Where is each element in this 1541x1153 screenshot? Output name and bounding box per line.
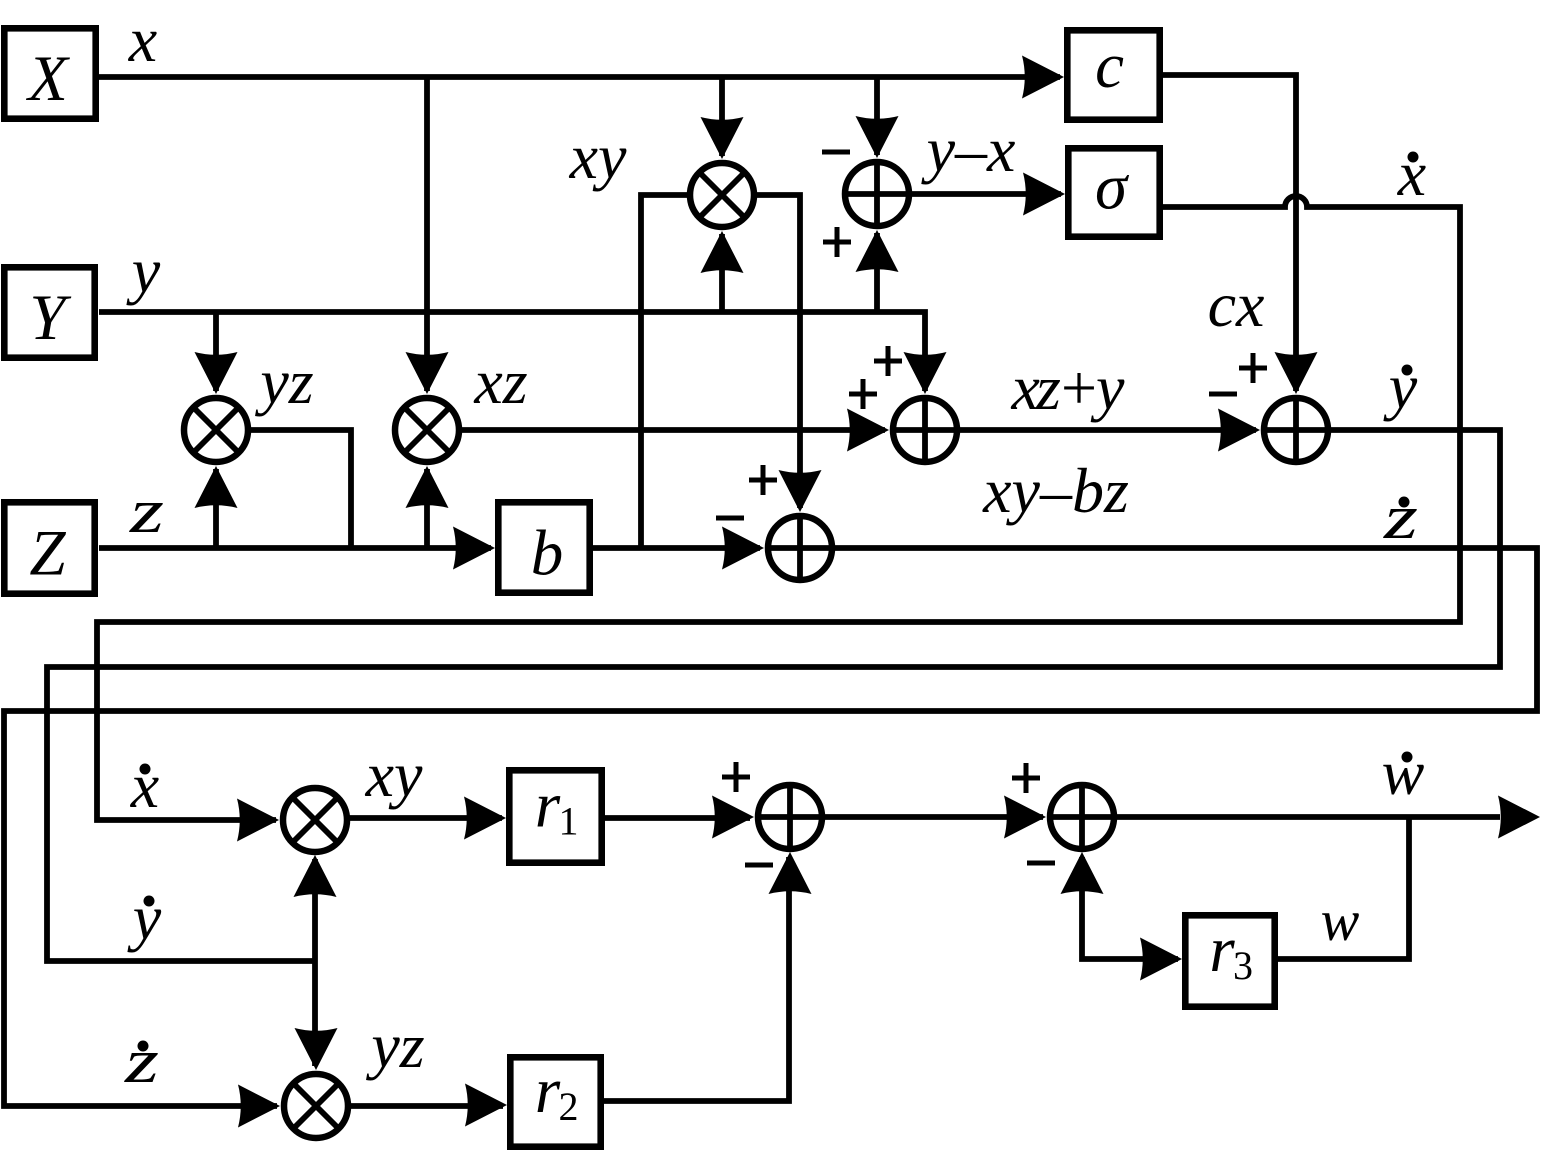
svg-text:xy: xy — [365, 739, 423, 810]
svg-text:σ: σ — [1095, 152, 1130, 224]
svg-text:y: y — [127, 882, 162, 953]
svg-text:X: X — [25, 43, 70, 115]
svg-text:Z: Z — [29, 518, 66, 590]
svg-text:w: w — [1321, 888, 1360, 953]
svg-text:2: 2 — [559, 1084, 579, 1129]
svg-text:y–x: y–x — [921, 114, 1016, 185]
svg-text:xz: xz — [473, 346, 527, 417]
svg-text:1: 1 — [559, 799, 579, 844]
svg-text:r: r — [1209, 914, 1235, 986]
svg-text:x: x — [1397, 138, 1426, 209]
svg-text:z: z — [124, 1025, 159, 1096]
svg-text:cx: cx — [1208, 269, 1265, 340]
svg-text:w: w — [1382, 737, 1425, 808]
svg-text:x: x — [128, 4, 157, 75]
svg-text:z: z — [1383, 481, 1418, 552]
svg-text:r: r — [535, 770, 561, 842]
svg-text:r: r — [535, 1055, 561, 1127]
svg-text:3: 3 — [1233, 943, 1253, 988]
svg-text:x: x — [130, 750, 159, 821]
svg-text:yz: yz — [254, 346, 313, 417]
svg-text:yz: yz — [365, 1010, 424, 1081]
svg-text:z: z — [129, 475, 164, 546]
svg-text:c: c — [1095, 30, 1124, 102]
svg-text:b: b — [531, 518, 564, 590]
svg-text:xy–bz: xy–bz — [982, 455, 1129, 526]
svg-text:Y: Y — [29, 282, 71, 354]
svg-text:y: y — [126, 235, 161, 306]
svg-text:xz+y: xz+y — [1011, 352, 1126, 423]
svg-text:y: y — [1383, 351, 1418, 422]
svg-text:xy: xy — [569, 121, 627, 192]
